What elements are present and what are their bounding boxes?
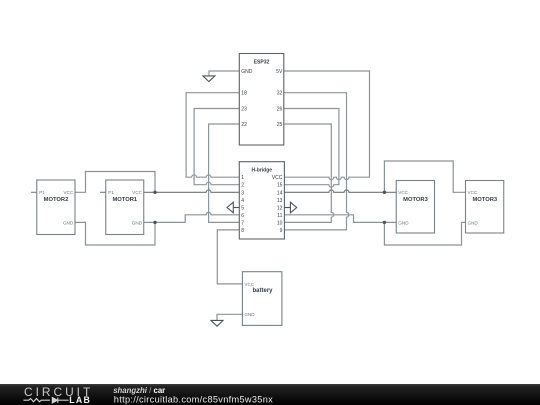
svg-text:25: 25 [277,122,283,128]
svg-text:32: 32 [277,91,283,97]
svg-text:GND: GND [468,220,479,225]
wire MOTOR2 GND branch under MOTOR1 [75,222,155,245]
MOTOR2 labels [39,190,74,225]
svg-text:P1: P1 [39,190,45,195]
op H-bridge U2 box [239,162,284,239]
wire MOTOR2 VCC branch over MOTOR1 [75,172,155,193]
wire net VCC-left: MOTOR1 VCC to H-bridge 3 [144,190,240,192]
wire ESP32 23 to H-bridge 2 [194,109,239,185]
svg-text:6: 6 [241,213,244,219]
node junction VCC-right [383,191,386,194]
node junction GND-right [383,221,386,224]
wire branch over MOTOR3 to right MOTOR3 VCC [384,161,465,192]
svg-text:GND: GND [398,220,409,225]
svg-text:VCC: VCC [244,282,254,287]
MOTOR3 left labels [398,190,428,225]
svg-text:2: 2 [241,183,244,189]
svg-text:5V: 5V [276,69,283,75]
port arrow left (H-bridge pin 5) [227,202,239,213]
svg-text:ESP32: ESP32 [254,60,270,66]
MOTOR3 right labels [468,190,498,225]
svg-text:http://circuitlab.com/c85vnfm5: http://circuitlab.com/c85vnfm5w35nx [114,394,273,404]
wire net VCC-right: H-bridge 14 to MOTOR3 VCC [284,190,396,192]
battery V1 box [242,272,282,326]
footer bar [0,384,540,405]
svg-text:1: 1 [241,175,244,181]
svg-text:11: 11 [277,213,282,219]
svg-text:MOTOR1: MOTOR1 [112,197,137,203]
wire ESP32 25 to H-bridge 10 [284,124,334,222]
logo resistor zigzag and diode [23,398,68,403]
svg-text:3: 3 [241,190,244,196]
port arrow right (H-bridge pin 12) [284,202,296,213]
battery labels [244,282,273,317]
svg-text:VCC: VCC [272,175,283,181]
ground GND2 (bottom, at battery) [211,320,223,326]
wire ESP32 32 to H-bridge 9 [284,93,349,230]
wire H-bridge 8 to battery VCC [217,230,242,284]
node junction GND-left [153,221,156,224]
svg-text:10: 10 [277,220,283,226]
motor MOTOR3 (left) box [396,181,434,234]
wire battery GND to ground [217,314,242,320]
svg-text:GND: GND [241,69,253,75]
wire ESP32 26 to H-bridge 15 [284,109,339,188]
svg-text:LAB: LAB [69,395,91,405]
wire ESP32 18 to H-bridge 1 [186,93,239,178]
svg-text:P1: P1 [108,190,114,195]
svg-text:22: 22 [241,122,247,128]
svg-text:H-bridge: H-bridge [252,167,273,173]
MOTOR1 labels [108,190,142,225]
svg-text:15: 15 [277,183,283,189]
svg-text:9: 9 [280,228,283,234]
H-bridge labels [241,167,282,234]
wire ESP32 5V to H-bridge VCC [284,71,370,180]
svg-text:VCC: VCC [63,190,73,195]
svg-text:VCC: VCC [468,190,478,195]
svg-text:8: 8 [241,228,244,234]
svg-text:GND: GND [244,312,255,317]
motor MOTOR2 box [31,180,75,235]
wire ESP32 GND to ground [209,71,239,76]
svg-text:MOTOR3: MOTOR3 [403,197,428,203]
svg-text:VCC: VCC [398,190,408,195]
svg-text:26: 26 [277,106,283,112]
svg-text:23: 23 [241,106,247,112]
svg-text:18: 18 [241,91,247,97]
node junction VCC-left [153,191,156,194]
svg-text:GND: GND [132,220,143,225]
wire net GND-left: MOTOR1 GND to H-bridge 6 [144,212,240,222]
svg-text:5: 5 [241,205,244,211]
svg-text:GND: GND [63,220,74,225]
op ESP32 U1 box [239,54,283,146]
motor MOTOR3 (right) box [466,181,504,234]
svg-text:14: 14 [277,190,283,196]
svg-text:VCC: VCC [132,190,142,195]
motor MOTOR1 box [100,180,144,235]
wire branch under MOTOR3 to right MOTOR3 GND [384,222,465,245]
wire net GND-right: H-bridge 11 to MOTOR3 GND [284,215,396,223]
svg-text:4: 4 [241,198,244,204]
svg-text:13: 13 [277,198,283,204]
svg-text:7: 7 [241,220,244,226]
svg-text:MOTOR3: MOTOR3 [472,197,497,203]
svg-text:battery: battery [252,288,273,294]
wire ESP32 22 to H-bridge 7 [209,124,240,222]
ESP32 labels [241,60,283,128]
svg-text:12: 12 [277,205,283,211]
svg-text:MOTOR2: MOTOR2 [44,197,69,203]
ground GND1 (top, at ESP32) [203,76,215,82]
